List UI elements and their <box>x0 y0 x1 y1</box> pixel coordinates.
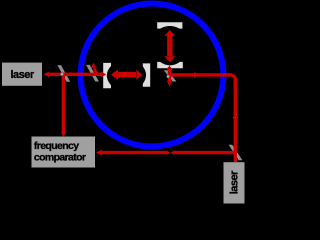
pick-off curved arrow at M1 <box>95 68 98 74</box>
pick-off mirror M1 <box>86 65 99 82</box>
beam: BS1 pick-off down to comparator <box>62 76 65 132</box>
arrowhead leftwards converging <box>171 150 174 155</box>
arrowhead into laser 1 <box>44 72 49 77</box>
cyan contact dot on BS1 <box>61 73 64 76</box>
arrowhead down below BS2 <box>167 81 172 87</box>
arrowhead rightwards converging <box>167 150 170 155</box>
arrowhead into left cavity mirror <box>101 72 106 78</box>
arrowhead downwards on right beam <box>232 117 238 122</box>
svg-text:laser: laser <box>10 69 34 81</box>
cavity mirror: vertical cavity top <box>157 22 182 28</box>
cavity mirror: horizontal cavity left <box>103 63 111 88</box>
steering mirror M2 <box>229 145 243 160</box>
beam: laser1 to horizontal cavity <box>47 73 102 76</box>
beam splitter BS2 <box>164 70 177 81</box>
rotating platform (blue circle) <box>81 4 224 147</box>
svg-text:frequency: frequency <box>34 140 79 152</box>
cavity mirror: horizontal cavity right <box>143 63 150 86</box>
beam: bottom right segment (from M2) <box>174 151 236 154</box>
cyan contact dot on BS2 <box>167 75 170 78</box>
arrowhead up into bottom cavity mirror <box>167 65 172 70</box>
beam: vertical cavity coupling through BS2 <box>168 67 171 82</box>
standing wave arrow: vertical cavity <box>167 36 172 57</box>
beam splitter BS1 <box>57 65 70 82</box>
laser 2 box <box>224 162 245 203</box>
laser 1 box <box>2 63 42 86</box>
arrowhead into comparator <box>61 132 66 137</box>
svg-text:laser: laser <box>229 170 241 194</box>
arrowhead rightwards on BS2 output <box>194 72 199 78</box>
cavity mirror: vertical cavity bottom <box>157 62 183 68</box>
beam: bottom left segment (to comparator) <box>101 151 167 154</box>
arrowhead into comparator (left) <box>96 150 102 156</box>
svg-text:comparator: comparator <box>34 152 86 164</box>
frequency comparator box <box>32 137 96 168</box>
standing wave arrow: horizontal cavity <box>118 72 137 77</box>
beam: BS2 to right edge and down to M2 and laser 2 <box>170 75 235 162</box>
